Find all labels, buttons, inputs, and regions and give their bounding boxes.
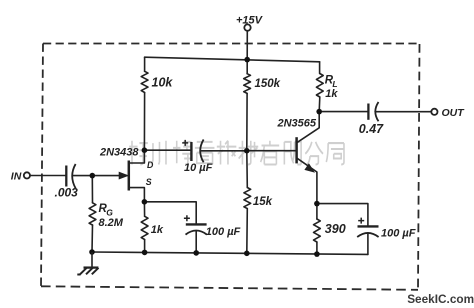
- svg-text:100 µF: 100 µF: [381, 227, 416, 239]
- resistor RG zigzag: [89, 203, 96, 225]
- junction dot drain node: [142, 147, 148, 153]
- junction dot 390 bottom: [314, 251, 320, 257]
- junction dot gate node: [90, 173, 96, 179]
- wire bottom rail: [92, 252, 368, 254]
- transistor Q 2N3565 emitter arrow: [305, 164, 314, 172]
- resistor 15k zigzag: [244, 188, 251, 209]
- svg-text:390: 390: [325, 222, 346, 236]
- capacitor 10uF: [182, 140, 203, 163]
- junction dot collector node: [316, 109, 322, 115]
- svg-text:150k: 150k: [255, 78, 281, 90]
- wire 100uF cap1 stem: [195, 231, 197, 253]
- junction dot emitter node: [314, 201, 320, 207]
- JFET 2N3438 gate arrow: [119, 172, 128, 178]
- wire emitter node to 100uF cap2: [317, 204, 368, 226]
- resistor 390 zigzag: [314, 219, 321, 242]
- svg-text:1k: 1k: [325, 88, 338, 100]
- wire source node to 100uF cap1: [144, 202, 196, 224]
- wire 0.47 cap to OUT: [375, 111, 431, 113]
- svg-text:.003: .003: [55, 185, 79, 199]
- wire Q1 collector: [297, 112, 319, 143]
- dashed enclosure border: [41, 44, 420, 290]
- resistor RL branch leads: [318, 62, 321, 112]
- svg-text:100 µF: 100 µF: [206, 226, 241, 238]
- svg-text:8.2M: 8.2M: [99, 217, 124, 229]
- svg-text:0.47: 0.47: [359, 122, 384, 136]
- svg-text:S: S: [146, 177, 152, 187]
- capacitor 100uF C2: [357, 218, 378, 237]
- capacitor 100uF C1: [184, 215, 207, 234]
- wire Q1 emitter: [297, 158, 317, 203]
- resistor 10k zigzag: [141, 71, 148, 92]
- junction dot V+ rail: [244, 57, 250, 63]
- junction dot base node: [244, 148, 250, 154]
- svg-text:2N3438: 2N3438: [99, 146, 139, 158]
- resistor RG leads: [91, 176, 94, 252]
- svg-text:OUT: OUT: [442, 107, 466, 119]
- wire IN to capacitor: [30, 175, 66, 177]
- svg-text:10k: 10k: [152, 76, 174, 90]
- resistor R 10k branch leads: [143, 57, 145, 150]
- wire +15V drop: [246, 31, 248, 60]
- junction dot 15k bottom: [244, 251, 250, 257]
- capacitor 0.47: [368, 102, 378, 121]
- terminal OUT: [431, 109, 437, 115]
- svg-text:2N3565: 2N3565: [277, 117, 317, 129]
- junction dot ground node: [89, 249, 95, 255]
- wire collector node to 0.47 cap: [319, 111, 367, 113]
- resistor 150k zigzag: [244, 74, 251, 94]
- resistor 1k zigzag: [141, 216, 148, 239]
- wire 100uF cap2 stem: [367, 233, 369, 254]
- junction dot source node: [142, 199, 148, 205]
- watermark pseudo CJK glyphs: [129, 141, 344, 165]
- wire base node to Q1 base: [247, 150, 296, 152]
- svg-text:SeekIC.com: SeekIC.com: [407, 292, 474, 306]
- terminal IN: [24, 172, 30, 178]
- resistor 1k leads: [143, 202, 145, 253]
- wire top rail: [145, 57, 320, 62]
- wire gate node to JFET gate: [92, 175, 127, 177]
- resistor 15k leads: [246, 151, 249, 254]
- JFET 2N3438 channel bar: [128, 161, 131, 191]
- transistor Q 2N3565 base bar: [295, 137, 298, 163]
- junction dot 1k bottom: [142, 250, 148, 256]
- junction dot cap1 bottom: [193, 250, 199, 256]
- svg-text:+15V: +15V: [236, 14, 264, 26]
- wire capacitor to gate node: [73, 175, 93, 177]
- svg-text:D: D: [147, 160, 154, 170]
- resistor 150k branch leads: [246, 60, 248, 151]
- svg-text:15k: 15k: [253, 196, 273, 208]
- JFET 2N3438 source lead: [130, 188, 145, 202]
- wire drain node to 10uF: [144, 149, 190, 151]
- svg-text:IN: IN: [11, 170, 22, 182]
- resistor RL zigzag: [316, 74, 323, 98]
- JFET 2N3438 drain lead: [130, 150, 145, 163]
- ground symbol: [77, 252, 98, 275]
- terminal +15V: [244, 24, 250, 30]
- svg-text:1k: 1k: [151, 224, 164, 236]
- svg-text:10 µF: 10 µF: [184, 162, 213, 174]
- wire 10uF to base node: [200, 150, 246, 152]
- capacitor C .003: [66, 164, 75, 188]
- resistor 390 leads: [316, 204, 318, 255]
